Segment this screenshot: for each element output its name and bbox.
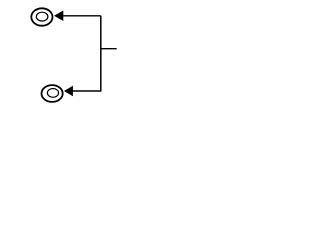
wire vertical bus (100, 16, 102, 91)
connector J2 inner ring (47, 89, 58, 98)
connector J1 (top socket) outer ring (31, 8, 52, 25)
connector J1 inner ring (36, 12, 48, 21)
wire top horizontal (63, 15, 101, 17)
wire bottom horizontal (72, 90, 101, 92)
arrowhead pointing to J1 (54, 11, 63, 21)
arrowhead pointing to J2 (64, 86, 73, 97)
connector J2 (bottom socket) outer ring (42, 85, 63, 102)
node stub (middle tap) (101, 48, 117, 50)
